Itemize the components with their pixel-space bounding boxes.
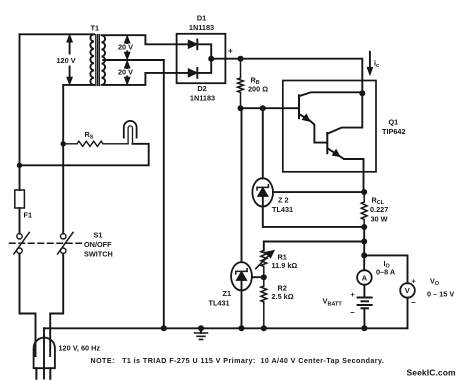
diode D1	[188, 40, 197, 48]
svg-text:VO: VO	[430, 277, 439, 288]
svg-text:A: A	[362, 273, 368, 282]
wire left AC line upper	[19, 34, 21, 190]
node bus center tap	[161, 325, 167, 331]
svg-text:TIP642: TIP642	[382, 127, 406, 136]
Z1 reference wire	[252, 276, 264, 278]
svg-text:TL431: TL431	[272, 205, 293, 214]
resistor R2	[261, 277, 267, 328]
node RCL top	[361, 189, 367, 195]
svg-text:20 V: 20 V	[118, 67, 133, 76]
svg-text:Z 2: Z 2	[278, 196, 289, 205]
wire lamp return to left line	[20, 144, 149, 166]
svg-text:0 – 15 V: 0 – 15 V	[427, 290, 454, 299]
resistor RCL	[361, 192, 367, 227]
rectifier box	[177, 34, 226, 83]
svg-text:ic: ic	[374, 59, 379, 70]
potentiometer R1	[261, 251, 267, 278]
switch S1 pole left circles	[17, 234, 22, 239]
label Z1 TL431	[209, 289, 232, 308]
wire R1 top line	[264, 242, 364, 251]
svg-text:11.9 kΩ: 11.9 kΩ	[272, 261, 298, 270]
resistor RS	[63, 141, 128, 146]
svg-text:Z1: Z1	[223, 289, 232, 298]
label Z2 TL431	[272, 196, 293, 215]
battery VBATT	[363, 285, 365, 298]
svg-text:T1: T1	[91, 24, 100, 33]
AC plug prongs	[36, 368, 50, 379]
Z2 TL431	[262, 108, 264, 178]
label Q1 TIP642	[382, 118, 406, 137]
ground symbol	[200, 328, 202, 333]
lamp pilot light	[124, 121, 137, 138]
svg-text:120 V: 120 V	[57, 56, 76, 65]
wire plug middle prong to ground bus	[43, 328, 45, 378]
wire secondary top to D1	[103, 35, 188, 44]
switch S1 blade right	[58, 232, 74, 254]
svg-text:+: +	[351, 290, 355, 299]
i_c arrow	[369, 52, 371, 71]
node Q1 collector	[359, 90, 365, 96]
label R2 2.5 k	[272, 284, 294, 302]
svg-text:120 V, 60 Hz: 120 V, 60 Hz	[59, 344, 101, 353]
svg-text:NOTE: T1 is TRIAD F-275 U 11: NOTE: T1 is TRIAD F-275 U 115 V Primary:…	[91, 357, 385, 365]
transistor Q1 box	[283, 81, 376, 172]
node meter branch	[361, 252, 367, 258]
svg-text:F1: F1	[24, 211, 33, 220]
svg-text:+: +	[228, 47, 233, 56]
label VBATT + -	[323, 290, 356, 317]
switch S1 blade left	[14, 232, 29, 254]
label D2 1N1183	[190, 84, 215, 103]
node RCL bottom	[361, 224, 367, 230]
switch S1 pole right circles	[61, 234, 66, 239]
label RCL 0.227 30 W	[370, 196, 388, 224]
wire emitter node to ammeter	[363, 227, 365, 270]
node rectifier output	[208, 56, 214, 62]
Z1 TL431	[241, 108, 243, 262]
svg-text:0–8 A: 0–8 A	[376, 268, 396, 277]
label S1 ON/OFF SWITCH	[84, 231, 113, 259]
node + rail at RB	[238, 56, 244, 62]
svg-text:SWITCH: SWITCH	[84, 250, 113, 259]
fuse F1	[15, 190, 25, 208]
transistor Q1 internal first stage	[298, 95, 300, 118]
node base line at Z2 column	[260, 105, 266, 111]
label 20 V upper with measure arrows	[118, 36, 133, 60]
svg-text:ON/OFF: ON/OFF	[84, 240, 112, 249]
label VO 0-15 V	[427, 277, 454, 299]
svg-text:−: −	[350, 308, 355, 317]
ammeter IO	[357, 270, 372, 285]
wire + output rail	[211, 59, 362, 94]
transformer T1 secondary winding	[102, 35, 106, 85]
svg-text:S1: S1	[94, 231, 103, 240]
wire switch left to plug	[20, 253, 36, 356]
label R1 11.9 k	[272, 253, 298, 271]
svg-text:30 W: 30 W	[371, 215, 388, 224]
diode D2	[188, 69, 197, 77]
node R1 line	[361, 239, 367, 245]
wire secondary bottom to D2	[103, 73, 188, 85]
node bus Z1	[239, 325, 245, 331]
node bus R2	[261, 325, 267, 331]
node R1 R2 junction	[261, 274, 267, 280]
voltmeter VO	[400, 283, 415, 298]
node RS tap	[61, 141, 66, 146]
resistor RB	[238, 59, 244, 108]
svg-text:V: V	[405, 286, 410, 295]
svg-text:SeekIC.com: SeekIC.com	[407, 368, 457, 378]
svg-text:1N1183: 1N1183	[190, 94, 215, 103]
Z2 reference wire	[273, 191, 364, 193]
label voltmeter + -	[411, 277, 416, 308]
wire primary bottom / right AC line	[63, 85, 94, 234]
svg-text:D1: D1	[197, 14, 206, 23]
svg-text:0.227: 0.227	[370, 205, 388, 214]
label RB 200 ohm	[248, 76, 268, 94]
wire switch right to plug	[50, 253, 63, 356]
wire voltmeter branch top	[364, 255, 407, 283]
svg-text:2.5 kΩ: 2.5 kΩ	[272, 292, 294, 301]
switch S1 dashed link	[10, 242, 84, 244]
svg-text:RS: RS	[85, 130, 94, 141]
node bus ground	[198, 325, 204, 331]
transistor Q1 internal second stage	[326, 133, 328, 153]
svg-text:Q1: Q1	[389, 118, 399, 127]
svg-text:1N1183: 1N1183	[189, 23, 214, 32]
svg-text:VBATT: VBATT	[323, 297, 343, 308]
transformer T1 primary winding	[90, 34, 94, 85]
label 20 V lower with measure arrows	[118, 61, 133, 85]
svg-text:20 V: 20 V	[118, 43, 133, 52]
svg-text:D2: D2	[197, 84, 206, 93]
svg-text:+: +	[412, 277, 416, 286]
node base line at RB column	[238, 105, 244, 111]
node lamp return on left line	[17, 163, 22, 168]
node bus battery	[361, 325, 367, 331]
label 120 V with measure arrows	[57, 35, 76, 85]
label IO 0-8 A	[376, 259, 396, 277]
wire F1 to switch	[19, 208, 21, 234]
wire bottom bus	[44, 327, 408, 329]
svg-text:TL431: TL431	[209, 299, 230, 308]
wire primary top	[20, 33, 95, 35]
wire base line to Q1	[241, 107, 300, 109]
transformer T1 core	[96, 35, 100, 86]
svg-text:200 Ω: 200 Ω	[248, 85, 268, 94]
wire center tap down to bus	[103, 60, 164, 328]
label D1 1N1183	[189, 14, 214, 33]
svg-text:−: −	[411, 298, 416, 307]
AC plug body	[34, 338, 55, 369]
